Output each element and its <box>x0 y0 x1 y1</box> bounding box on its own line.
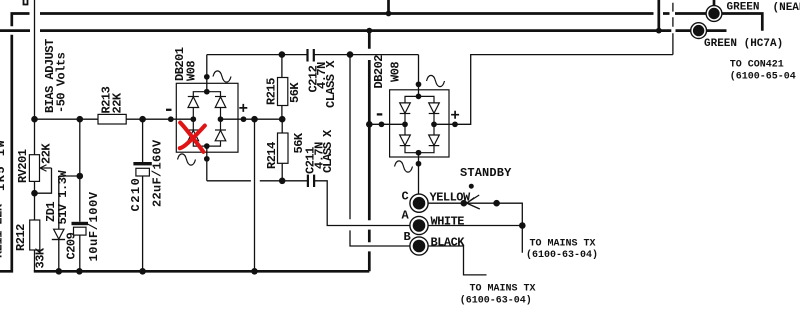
connector A filled center <box>413 219 426 232</box>
svg-text:YELLOW: YELLOW <box>430 191 472 205</box>
wire DB201 bottom L to C211/R214 node (with crossing gap) <box>207 180 307 182</box>
node junction x=254.5 on bus3 <box>251 268 258 275</box>
svg-text:TO CON421: TO CON421 <box>730 60 784 71</box>
svg-text:C210: C210 <box>129 177 143 212</box>
node junction (496.6,203.2) <box>493 200 500 207</box>
svg-text:W08: W08 <box>185 61 199 81</box>
wire top bus 1 (horizontal, with crossing gaps) <box>40 12 706 15</box>
wire DB202 bottom connecting bar <box>405 146 434 153</box>
capacitor C210 solid plate <box>133 162 151 165</box>
wire DB201 top connecting bar <box>193 92 220 97</box>
resistor R215 box <box>278 78 288 106</box>
svg-text:CLASS X: CLASS X <box>321 129 335 173</box>
svg-text:1K5 1W: 1K5 1W <box>0 139 8 191</box>
diode DB202 D2 (top-right, points down) <box>429 103 440 113</box>
wire DB202 left branch middle <box>404 114 406 136</box>
svg-text:C: C <box>402 190 409 204</box>
wire R214 top / bottom stubs <box>281 119 283 181</box>
wire top bus 1 left corner segment <box>12 14 30 27</box>
svg-text:STANDBY: STANDBY <box>460 166 512 180</box>
node DB201 right mid node <box>218 116 224 122</box>
wire top bus 2 (horizontal, with crossing gaps) <box>0 29 691 32</box>
wire top bus 1 right stub to corner going down <box>722 14 763 31</box>
svg-text:RV201: RV201 <box>16 149 30 183</box>
wire DB201 bottom connecting bar <box>193 141 220 146</box>
wire R212 bottom to bus3 <box>34 250 36 271</box>
svg-text:GREEN (HC7A): GREEN (HC7A) <box>704 38 783 50</box>
wire DB202 right branch middle <box>433 114 435 136</box>
svg-text:(6100-65-04: (6100-65-04 <box>730 71 796 83</box>
svg-text:R214: R214 <box>265 142 279 169</box>
connector GREEN2 ring <box>691 23 707 39</box>
wire DB201 left branch middle <box>192 108 194 131</box>
svg-text:GREEN: GREEN <box>727 2 760 14</box>
svg-text:(6100-63-04): (6100-63-04) <box>460 295 532 307</box>
diode DB201 D2 (top-right, points up) <box>215 96 226 98</box>
diode DB201 D4 (bottom-right, points up) <box>215 129 226 131</box>
wire YELLOW from C connector to switch and corner down <box>428 203 522 253</box>
node junction (282.2,119.2) <box>279 116 286 123</box>
svg-text:DB202: DB202 <box>372 55 386 89</box>
svg-text:22uF/160V: 22uF/160V <box>151 139 165 207</box>
svg-text:WHITE: WHITE <box>431 215 465 229</box>
wire ZD1 bottom <box>58 240 60 272</box>
node DB202 bottom terminal dot <box>416 161 422 167</box>
svg-text:BLACK: BLACK <box>431 236 466 250</box>
svg-text:B: B <box>404 230 411 244</box>
bridge DB201 box <box>176 83 238 152</box>
connector C (YELLOW) ring <box>410 194 428 212</box>
node DB201 top terminal dot <box>204 74 210 80</box>
wire DB201 plus output row <box>221 118 283 120</box>
diode DB201 D3 (bottom-left, points up, crossed out) <box>188 129 199 131</box>
node junction (369.3,124.3) <box>366 121 373 128</box>
wire C211 right to A connector (corner down then right) <box>315 181 410 226</box>
AC tilde DB202 top <box>427 75 445 86</box>
resistor R213 box <box>98 114 126 124</box>
label minus of DB202 <box>377 113 383 115</box>
resistor R212 box <box>30 220 40 250</box>
AC tilde DB201 bottom <box>178 154 196 165</box>
wire stub from top edge into GREEN1 connector <box>713 0 716 6</box>
diode DB201 D1 (top-left, points up) <box>188 96 199 98</box>
node DB201 left mid node <box>190 116 196 122</box>
node DB202 top terminal dot <box>416 81 422 87</box>
wire C210 branch x=142.6 <box>142 119 144 271</box>
node DB201 minus terminal dot <box>168 116 174 122</box>
label plus of DB201 <box>239 104 247 112</box>
node junction (350,54.6) <box>347 51 354 58</box>
svg-text:CLASS X: CLASS X <box>324 60 338 108</box>
node DB201 bottom terminal dot <box>204 156 210 162</box>
wire C209 branch x=79.8 <box>79 119 81 271</box>
resistor R214 box <box>278 133 289 163</box>
svg-text:W08: W08 <box>389 62 403 82</box>
node DB202 left mid node <box>402 121 408 127</box>
connector GREEN1 filled center <box>708 8 719 19</box>
node junction (463.8,203.2) <box>461 200 468 207</box>
wire DB201 right branch middle <box>220 108 222 131</box>
svg-text:-50 Volts: -50 Volts <box>54 52 68 113</box>
node junction (282.2,180.8) <box>279 178 286 185</box>
small box bottom fragment at top-left <box>24 0 28 5</box>
wire left edge vertical (below crossing) down to bottom-left exit <box>0 35 12 271</box>
wire DB202 top connecting bar <box>405 96 434 103</box>
wire bottom bus 3 <box>34 270 370 273</box>
connector C filled center <box>413 197 426 210</box>
wire thin top link: DB201 top to C212 to DB202 top <box>207 55 419 97</box>
node junction ZD1 on bus3 <box>56 268 63 275</box>
red X cross-out over DB201 bottom-left diode <box>180 123 205 152</box>
svg-text:33K: 33K <box>34 247 48 268</box>
node DB202 bottom internal node <box>416 150 422 156</box>
svg-text:10uF/100V: 10uF/100V <box>87 191 101 261</box>
wire branch x=350 down to B wire (gap at A wire crossing) <box>350 55 410 246</box>
wire WHITE from A connector to junction <box>428 225 522 227</box>
svg-text:R211 22K: R211 22K <box>0 203 6 258</box>
wire DB202 minus input from thick vertical <box>369 123 405 125</box>
connector A (WHITE) ring <box>410 216 428 234</box>
diode DB202 D4 (bottom-right, points down) <box>429 135 440 145</box>
standby switch blade and arrowhead <box>467 195 480 209</box>
potentiometer RV201 wiper arrow and wire <box>35 168 52 193</box>
node junction (522.3,225.5) <box>519 222 526 229</box>
wire ZD1 top connection <box>59 176 80 229</box>
diode DB202 D3 (bottom-left, points down) <box>400 135 411 145</box>
wire stub from top edge to bus2 at x=658.8 <box>657 0 660 31</box>
capacitor C212 plates <box>308 49 314 62</box>
wire main row y=119.2 left of R213 <box>35 118 99 120</box>
bridge DB202 box <box>390 90 449 157</box>
svg-text:R212: R212 <box>14 224 28 251</box>
wire DB201 top terminal vertical <box>206 55 208 92</box>
connector GREEN2 filled center <box>693 25 704 36</box>
connector B filled center <box>413 240 426 253</box>
node junction C210 on bus3 <box>139 268 146 275</box>
node junction C209 on bus3 <box>76 268 83 275</box>
node junction bus2 x=658.8 <box>656 28 662 34</box>
wire BLACK from B connector right, down, right <box>428 246 486 275</box>
node junction (34.5,193.2) <box>31 190 38 197</box>
svg-text:TO MAINS TX: TO MAINS TX <box>530 239 596 250</box>
svg-text:C209: C209 <box>65 232 79 259</box>
node DB202 top internal node <box>416 94 422 100</box>
node DB201 plus terminal dot <box>241 116 247 122</box>
svg-text:(6100-63-04): (6100-63-04) <box>526 249 598 261</box>
svg-text:22K: 22K <box>40 143 54 164</box>
node DB201 top internal node <box>204 89 210 95</box>
svg-text:22K: 22K <box>111 92 125 113</box>
svg-text:56K: 56K <box>288 82 302 103</box>
node DB202 right mid node <box>431 121 437 127</box>
potentiometer RV201 box <box>29 155 39 182</box>
diode DB202 D1 (top-left, points down) <box>400 103 411 113</box>
node junction (142.6,119.2) <box>139 116 146 123</box>
node junction (79.8,119.2) <box>77 116 84 123</box>
node junction (281.9,54.6) R215 top <box>279 51 286 58</box>
wire main row y=119.2 right of R213 into DB201 <box>126 118 193 120</box>
node DB202 minus terminal dot <box>379 121 385 127</box>
capacitor C211 plates <box>308 175 314 187</box>
capacitor C209 solid plate <box>72 222 89 225</box>
wire RV201 bottom to R212 <box>34 181 36 220</box>
AC tilde DB201 top <box>213 71 231 82</box>
node junction (34.5,119.2) <box>31 116 38 123</box>
svg-text:R215: R215 <box>265 78 279 105</box>
wire top bus 2 segment right of GREEN2 connector <box>707 29 727 32</box>
wire stub from top edge to bus1 at x=388.5 <box>387 0 390 14</box>
node junction (254.5,119.2) <box>251 116 258 123</box>
AC tilde DB202 bottom <box>395 161 413 172</box>
wire drop from plus node to bus3 <box>254 119 256 271</box>
label plus of DB202 <box>451 111 459 119</box>
node DB202 plus terminal dot <box>452 121 458 127</box>
node DB201 bottom internal node <box>204 143 210 149</box>
svg-text:(NEAR: (NEAR <box>773 2 800 14</box>
wire DB201 bottom terminal vertical <box>206 146 208 181</box>
wire thick vertical x=369.3 from bus2 down to bottom bus (crossing gaps) <box>368 31 371 272</box>
capacitor C209 hollow plate <box>74 227 87 235</box>
connector GREEN1 ring <box>706 6 722 22</box>
label minus of DB201 <box>166 109 172 111</box>
wire R215 top / bottom stubs <box>281 55 283 120</box>
node junction (79.8,176) <box>77 173 84 180</box>
svg-text:TO MAINS TX: TO MAINS TX <box>470 284 536 295</box>
node junction on bus1 at x=388.5 <box>386 11 392 17</box>
capacitor C210 hollow plate <box>136 168 150 176</box>
svg-text:51V 1.3W: 51V 1.3W <box>56 170 70 225</box>
node standby switch upper contact dot <box>469 184 474 189</box>
zener diode ZD1 symbol <box>54 229 64 239</box>
wire DB202 plus output: right, up, right, up to top edge (crossing gaps) <box>434 3 673 125</box>
wire DB202 bottom terminal vertical <box>418 153 420 195</box>
wire main vertical BIAS ADJUST x=34.5 <box>34 0 36 155</box>
node junction bus2 x=369.3 <box>366 28 372 34</box>
connector B (BLACK) ring <box>410 237 428 255</box>
